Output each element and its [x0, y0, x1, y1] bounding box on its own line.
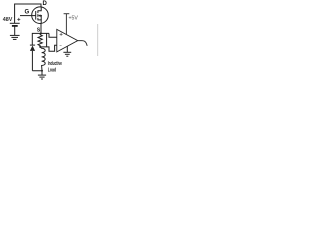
svg-text:D: D: [43, 1, 48, 7]
svg-text:+5V: +5V: [69, 16, 79, 22]
svg-text:Load: Load: [48, 67, 57, 73]
svg-text:G: G: [25, 10, 30, 16]
svg-text:48V: 48V: [3, 17, 13, 23]
svg-text:Inductive: Inductive: [48, 61, 62, 67]
